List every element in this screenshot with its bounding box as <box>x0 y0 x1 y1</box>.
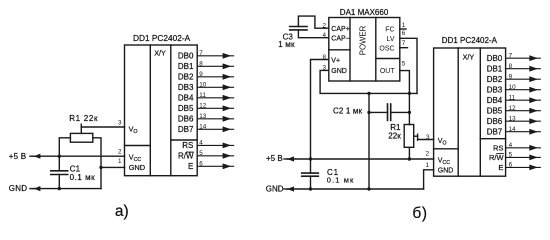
wire C3 top to CAP+ pin2 <box>298 16 328 28</box>
pin numbers 3,2,1 (b) <box>425 134 430 169</box>
svg-text:DB3: DB3 <box>178 83 194 92</box>
svg-text:9: 9 <box>509 74 513 81</box>
svg-text:+5 В: +5 В <box>266 154 283 163</box>
svg-text:DB7: DB7 <box>487 128 503 137</box>
svg-text:GND: GND <box>9 184 27 193</box>
svg-text:б): б) <box>412 205 427 222</box>
svg-text:6: 6 <box>402 30 406 37</box>
svg-text:5: 5 <box>402 61 406 68</box>
pin numbers 7-14 (b) <box>509 53 517 169</box>
wire C3 bottom to CAP- pin4 <box>298 30 328 38</box>
svg-text:OSC: OSC <box>379 45 394 52</box>
svg-text:2: 2 <box>425 151 429 158</box>
svg-text:5: 5 <box>509 152 513 159</box>
svg-text:X/Y: X/Y <box>463 52 475 61</box>
svg-text:4: 4 <box>199 140 203 147</box>
svg-text:9: 9 <box>199 71 203 78</box>
IC DD1 (a) PC2402-A box <box>125 45 198 176</box>
svg-text:7: 7 <box>509 53 513 60</box>
svg-text:10: 10 <box>199 82 207 89</box>
svg-text:V+: V+ <box>331 57 340 64</box>
data bus pins DB0-DB7 with arrows (b) <box>506 55 541 134</box>
svg-text:10: 10 <box>509 84 517 91</box>
svg-text:DB7: DB7 <box>178 125 194 134</box>
wire GND up to pin1 (a) <box>100 167 102 188</box>
wire VO pin3 (a) <box>81 126 124 128</box>
stub FC pin1 (b) <box>400 28 406 30</box>
svg-text:3: 3 <box>426 134 430 141</box>
wire LV pin6 down (b) <box>400 38 417 93</box>
capacitor C1 (a) <box>51 156 68 188</box>
svg-text:GND: GND <box>331 68 347 75</box>
node C1 on GND (a) <box>58 187 61 190</box>
svg-text:13: 13 <box>509 116 517 123</box>
wire +5V rail (b) <box>287 158 433 160</box>
svg-text:CAP+: CAP+ <box>331 26 349 33</box>
R1 wiper tick (a) <box>80 124 82 133</box>
svg-text:X/Y: X/Y <box>154 49 166 58</box>
control pins RS R/W E with arrows (b) <box>506 145 541 170</box>
svg-text:DB4: DB4 <box>487 96 503 105</box>
capacitor C2 <box>369 104 409 120</box>
control pins RS R/W E with arrows (a) <box>197 143 233 170</box>
R1 wiper tick (b) <box>417 134 419 140</box>
svg-text:11: 11 <box>199 92 206 99</box>
wire GND rail (b) <box>287 188 423 190</box>
resistor R1 (a) trimmer body <box>70 133 92 142</box>
svg-text:2: 2 <box>118 148 122 155</box>
node rail to GND drop (b) <box>367 92 370 95</box>
svg-text:DB5: DB5 <box>487 107 503 116</box>
node OUT on rail (b) <box>408 92 411 95</box>
svg-text:а): а) <box>115 203 129 220</box>
svg-text:POWER: POWER <box>359 25 368 55</box>
svg-text:LV: LV <box>387 36 395 43</box>
svg-text:1: 1 <box>425 162 429 169</box>
node R1/C1 on +5V (a) <box>58 155 61 158</box>
svg-text:GND: GND <box>438 167 454 174</box>
svg-text:12: 12 <box>509 105 517 112</box>
IC DA1 MAX660 box <box>329 18 400 82</box>
resistor R1 (b) trimmer body <box>404 125 414 148</box>
svg-text:6: 6 <box>509 162 513 169</box>
svg-text:DD1 PC2402-A: DD1 PC2402-A <box>133 33 191 43</box>
wire VO pin3 (b) <box>418 139 434 141</box>
svg-text:6: 6 <box>199 161 203 168</box>
node rail drop on GND (b) <box>367 187 370 190</box>
node C2 right (b) <box>408 111 411 114</box>
wire rail drop to GND line (b) <box>368 93 370 189</box>
connector arrow GND (b) <box>284 186 294 191</box>
wire R1 bottom to +5V (b) <box>408 147 410 159</box>
svg-text:1: 1 <box>118 158 122 165</box>
svg-text:5: 5 <box>199 150 203 157</box>
wire V+ pin8 (b) <box>311 60 329 160</box>
svg-text:8: 8 <box>509 63 513 70</box>
wire GND up to pin1 (b) <box>424 170 434 189</box>
svg-text:OUT: OUT <box>380 68 396 75</box>
svg-text:DB6: DB6 <box>487 117 503 126</box>
wire R1 right lead (a) <box>93 138 101 168</box>
svg-text:DB1: DB1 <box>487 65 503 74</box>
svg-text:R/W: R/W <box>489 153 505 162</box>
svg-text:4: 4 <box>509 142 513 149</box>
svg-text:14: 14 <box>199 124 207 131</box>
connector arrow +5V (b) <box>284 156 294 161</box>
svg-text:DB2: DB2 <box>487 75 503 84</box>
svg-text:DB0: DB0 <box>178 52 194 61</box>
svg-text:R1 22к: R1 22к <box>69 114 98 123</box>
svg-text:R/W: R/W <box>178 152 194 161</box>
svg-text:DB6: DB6 <box>178 115 194 124</box>
svg-text:8: 8 <box>199 61 203 68</box>
pin numbers DA1 left <box>322 22 326 71</box>
wire GND pin3 to rail (b) <box>320 70 417 93</box>
R1 wiper (b) <box>414 135 418 137</box>
svg-text:E: E <box>188 162 193 171</box>
svg-text:DB0: DB0 <box>487 54 503 63</box>
svg-text:GND: GND <box>129 163 145 172</box>
svg-text:11: 11 <box>509 95 516 102</box>
svg-text:FC: FC <box>385 27 394 34</box>
IC DD1 (b) PC2402-A box <box>434 48 506 176</box>
data bus pins DB0-DB7 with arrows (a) <box>197 53 233 132</box>
wire pin1 GND (a) <box>101 166 125 168</box>
svg-text:1: 1 <box>402 22 406 29</box>
svg-text:RS: RS <box>493 144 503 153</box>
svg-text:0.1 мк: 0.1 мк <box>70 173 96 182</box>
wire +5V rail (a) <box>34 155 125 157</box>
svg-text:7: 7 <box>199 50 203 57</box>
svg-text:3: 3 <box>118 119 122 126</box>
node R1 bottom on +5V (b) <box>408 157 411 160</box>
node C2 left (b) <box>367 111 370 114</box>
pin numbers 3,2,1 (a) <box>118 119 122 165</box>
svg-text:+5 В: +5 В <box>9 152 26 161</box>
pin numbers 7-14 (a) <box>199 50 207 168</box>
svg-text:DB3: DB3 <box>487 86 503 95</box>
svg-text:0.1 мк: 0.1 мк <box>327 176 355 185</box>
svg-text:DB2: DB2 <box>178 73 194 82</box>
stub OSC pin7 (b) <box>400 47 408 49</box>
node C1 on GND (b) <box>309 187 312 190</box>
capacitor C3 <box>290 27 307 30</box>
svg-text:E: E <box>498 163 503 172</box>
svg-text:7: 7 <box>402 40 406 47</box>
svg-text:GND: GND <box>266 185 284 194</box>
svg-text:12: 12 <box>199 103 207 110</box>
node V+/C1 on +5V (b) <box>309 157 312 160</box>
svg-text:CAP−: CAP− <box>331 36 349 43</box>
svg-text:DB4: DB4 <box>178 94 194 103</box>
connector arrow +5V (a) <box>30 154 40 159</box>
svg-text:DA1 MAX660: DA1 MAX660 <box>340 8 389 17</box>
svg-text:DD1 PC2402-A: DD1 PC2402-A <box>442 36 498 45</box>
svg-text:RS: RS <box>182 141 193 150</box>
svg-text:13: 13 <box>199 113 207 120</box>
connector arrow GND (a) <box>30 186 40 191</box>
svg-text:DB1: DB1 <box>178 62 194 71</box>
svg-text:22к: 22к <box>388 131 401 140</box>
svg-text:1 мк: 1 мк <box>278 40 295 49</box>
node pin1 wire (a) <box>99 166 102 169</box>
svg-text:14: 14 <box>509 126 517 133</box>
pin numbers DA1 right <box>402 22 406 68</box>
svg-text:C2 1 мк: C2 1 мк <box>333 107 363 116</box>
svg-text:DB5: DB5 <box>178 104 194 113</box>
wire R1 left lead (a) <box>59 138 70 156</box>
wire OUT pin5 down (b) <box>400 71 410 125</box>
capacitor C1 (b) <box>302 159 319 189</box>
wire GND rail (a) <box>34 188 101 190</box>
